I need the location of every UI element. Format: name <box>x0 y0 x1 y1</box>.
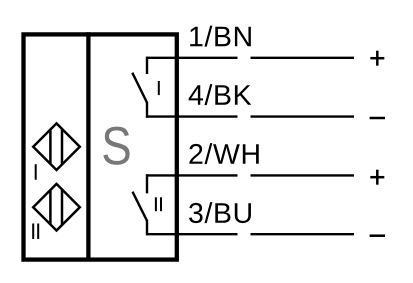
plus terminal (wire 2/WH) <box>370 170 384 185</box>
wire 3/BU inner segment <box>147 233 238 235</box>
wire 2/WH outer segment <box>251 174 355 176</box>
wire 1/BN outer segment <box>251 57 355 59</box>
label II (diamond II) <box>33 224 38 240</box>
label S (switching unit) <box>103 127 129 165</box>
label I (diamond I) <box>35 164 37 180</box>
wire 3/BU outer segment <box>251 233 355 235</box>
wire 4/BK inner segment <box>147 115 238 117</box>
label I (switch I) <box>158 81 160 95</box>
label 4/BK <box>189 84 252 105</box>
label 3/BU <box>189 202 251 223</box>
sensing element diamond II <box>33 184 80 231</box>
wire 1/BN inner segment <box>147 57 238 59</box>
minus terminal (wire 4/BK) <box>370 117 385 120</box>
switch I contact <box>132 57 147 118</box>
minus terminal (wire 3/BU) <box>370 234 385 237</box>
label 2/WH <box>189 143 258 164</box>
sensor housing box <box>24 34 177 259</box>
plus terminal (wire 1/BN) <box>370 51 384 66</box>
wire 2/WH inner segment <box>147 174 238 176</box>
divider wire between sensing compartment and switching compartment <box>86 32 90 259</box>
wire 4/BK outer segment <box>251 115 355 117</box>
label II (switch II) <box>156 197 161 211</box>
sensing element diamond I <box>33 123 80 170</box>
switch II contact <box>133 174 148 235</box>
label 1/BN <box>190 26 251 47</box>
